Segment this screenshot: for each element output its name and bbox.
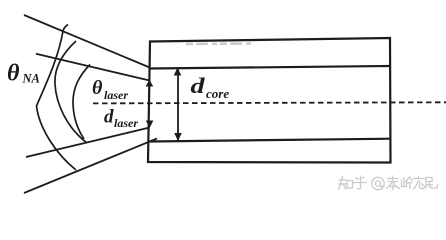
svg-text:θ: θ	[7, 61, 20, 87]
svg-text:laser: laser	[104, 88, 128, 102]
svg-text:d: d	[191, 74, 205, 98]
svg-text:θ: θ	[92, 77, 103, 99]
svg-text:core: core	[206, 86, 229, 101]
svg-text:NA: NA	[22, 72, 40, 86]
svg-text:laser: laser	[114, 116, 138, 130]
svg-text:d: d	[104, 107, 114, 128]
